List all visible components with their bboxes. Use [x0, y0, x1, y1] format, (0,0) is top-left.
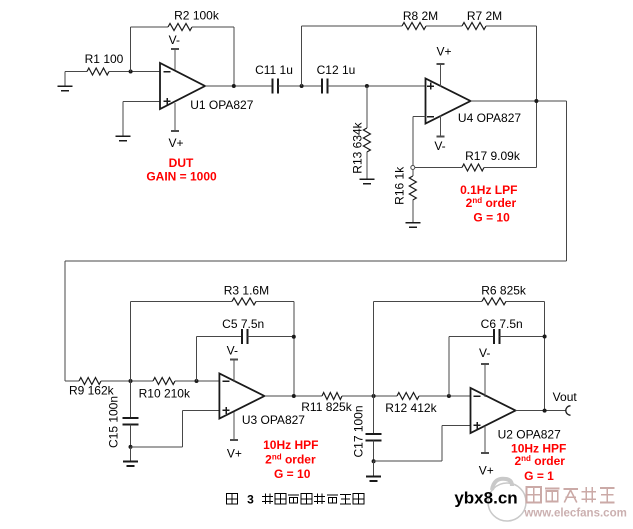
ground C17: [366, 461, 381, 481]
svg-text:3: 3: [247, 493, 254, 507]
node U1 out junction: [232, 84, 236, 88]
op-amp U4: [426, 79, 522, 126]
wire U2 + into: [442, 424, 470, 426]
ground R16: [405, 223, 420, 228]
terminal Vout: [553, 390, 578, 415]
svg-text:R9 162k: R9 162k: [69, 383, 115, 397]
svg-text:V-: V-: [434, 139, 445, 153]
svg-text:ybx8.cn: ybx8.cn: [454, 489, 517, 508]
ground input: [58, 72, 73, 91]
svg-text:R10 210k: R10 210k: [139, 386, 191, 400]
svg-text:U4 OPA827: U4 OPA827: [458, 111, 521, 125]
node C6 right junction: [543, 335, 547, 339]
wire R6 rail right: [506, 300, 545, 302]
watermark url: [523, 508, 626, 520]
resistor R17: [462, 149, 521, 171]
capacitor C5: [222, 317, 264, 344]
wire C12 to U4 +: [328, 85, 426, 87]
wire to ground U1+: [122, 101, 124, 136]
resistor R10: [139, 378, 191, 401]
wire U3 + vert: [181, 410, 183, 447]
svg-text:R7 2M: R7 2M: [467, 9, 502, 23]
V- stub U3: [227, 343, 238, 382]
svg-text:U2 OPA827: U2 OPA827: [498, 427, 561, 441]
V+ stub U1: [168, 103, 183, 150]
svg-text:U1 OPA827: U1 OPA827: [190, 98, 253, 112]
node A junction: [129, 70, 133, 74]
node C junction: [372, 394, 376, 398]
op-amp U1: [160, 63, 254, 112]
wire down right edge: [566, 101, 568, 261]
svg-text:V+: V+: [227, 446, 242, 460]
wire rail mid: [426, 25, 462, 27]
op-amp U3: [219, 374, 305, 428]
node U3 out junction: [292, 394, 296, 398]
wire C6 vert left: [448, 337, 450, 397]
wire R3 vert right: [293, 301, 295, 396]
node U4 out junction: [534, 99, 538, 103]
svg-text:V-: V-: [227, 343, 238, 357]
svg-text:R1 100: R1 100: [85, 52, 124, 66]
wire R11 right: [342, 395, 397, 397]
caption figure 3: [227, 493, 365, 507]
V- stub U2: [479, 346, 490, 397]
node C11-C12 junction: [300, 84, 304, 88]
node U2 out junction: [543, 409, 547, 413]
node C6 left junction: [447, 394, 451, 398]
svg-text:R6 825k: R6 825k: [481, 284, 527, 298]
svg-text:R17 9.09k: R17 9.09k: [465, 149, 521, 163]
wire U1 output: [205, 85, 272, 87]
ground C15: [123, 447, 138, 466]
svg-text:C11 1u: C11 1u: [255, 63, 293, 77]
watermark chinese: [527, 487, 615, 503]
label 10Hz HPF U3: [263, 438, 318, 452]
svg-text:V+: V+: [479, 463, 494, 477]
V- stub U1: [169, 33, 180, 70]
wire rail right: [486, 25, 536, 27]
svg-text:G = 10: G = 10: [274, 467, 311, 481]
capacitor C17: [352, 396, 382, 461]
wire C6 rail left: [449, 336, 494, 338]
wire R6 rail left: [374, 300, 482, 302]
wire U4 - left: [413, 116, 426, 118]
wire R1 to U1 -: [109, 71, 160, 73]
svg-text:R3 1.6M: R3 1.6M: [224, 284, 269, 298]
svg-text:C17 100n: C17 100n: [352, 405, 366, 457]
wire C6 rail right: [500, 336, 545, 338]
wire rail left: [302, 25, 402, 27]
wire R3 vert left: [130, 301, 132, 381]
capacitor C11: [255, 63, 293, 93]
svg-text:Vout: Vout: [553, 390, 578, 404]
wire rail down: [535, 26, 537, 168]
svg-text:V+: V+: [436, 45, 451, 59]
wire to R9: [65, 380, 79, 382]
wire C11 to C12: [278, 85, 322, 87]
svg-text:C12 1u: C12 1u: [317, 63, 356, 77]
op-amp U2: [471, 388, 562, 441]
svg-text:C5 7.5n: C5 7.5n: [222, 317, 264, 331]
wire C5 vert left: [196, 337, 198, 381]
resistor R7: [462, 9, 502, 30]
svg-text:G = 10: G = 10: [473, 211, 510, 225]
V- stub U4: [434, 115, 445, 153]
label GAIN = 1000: [146, 170, 217, 184]
wire R3 rail right: [256, 300, 294, 302]
resistor R3: [224, 284, 269, 305]
wire U3 + into: [182, 409, 219, 411]
svg-text:C15 100n: C15 100n: [107, 396, 121, 448]
wire R3 rail left: [131, 300, 233, 302]
wire feedback top right: [192, 26, 234, 28]
resistor R16: [393, 166, 417, 223]
wire U3 output: [264, 395, 322, 397]
label 2nd order U3: [265, 453, 316, 467]
wire down left edge: [64, 261, 66, 381]
wire U4 output: [471, 100, 567, 102]
svg-text:R8 2M: R8 2M: [403, 9, 438, 23]
V+ stub U2: [479, 426, 494, 477]
svg-text:V+: V+: [168, 136, 183, 150]
wire feedback right: [233, 27, 235, 86]
wire U2 output: [516, 410, 567, 412]
wire R10 to U3 -: [175, 380, 219, 382]
wire R6 vert right: [544, 301, 546, 410]
wire U1 + input: [123, 100, 160, 102]
wire node to R17: [415, 167, 462, 169]
wire R17 right: [484, 167, 536, 169]
wire C17 to U2 + horizontal: [374, 460, 443, 462]
wire C15 to U3 + horizontal: [131, 446, 183, 448]
resistor R6: [481, 284, 527, 305]
resistor R1: [85, 52, 124, 75]
resistor R8: [402, 9, 438, 30]
V+ stub U3: [227, 412, 242, 460]
svg-text:R16 1k: R16 1k: [393, 166, 407, 205]
capacitor C6: [481, 317, 523, 344]
logo blob: [488, 479, 526, 521]
wire feedback top left: [131, 26, 168, 28]
wire U4 - down: [412, 117, 414, 168]
wire R6 vert left: [373, 301, 375, 396]
svg-text:10Hz HPF: 10Hz HPF: [263, 438, 318, 452]
node C15 bottom junction: [129, 445, 133, 449]
label 10Hz HPF U2: [511, 441, 566, 455]
label DUT: [169, 156, 194, 170]
wire across: [65, 260, 567, 262]
resistor R9: [69, 378, 115, 398]
svg-text:www.elecfans.com: www.elecfans.com: [523, 508, 626, 520]
node R13 tap: [365, 84, 369, 88]
svg-text:R11 825k: R11 825k: [301, 400, 352, 414]
resistor R11: [301, 393, 352, 415]
resistor R2: [168, 9, 220, 31]
wire C5 rail right: [248, 336, 294, 338]
resistor R13: [351, 86, 371, 179]
V+ stub U4: [436, 45, 451, 88]
label G = 10 U3: [274, 467, 311, 481]
svg-text:V-: V-: [479, 346, 490, 360]
node C17 bottom junction: [372, 459, 376, 463]
capacitor C12: [317, 63, 356, 94]
wire U2 + vert: [441, 425, 443, 461]
wire C5 rail left: [197, 336, 243, 338]
node B junction: [129, 379, 133, 383]
wire R9 to R10: [101, 380, 153, 382]
label G = 10 U4: [473, 211, 510, 225]
capacitor C15: [107, 381, 139, 448]
wire R12 to U2 -: [419, 395, 471, 397]
svg-text:R12 412k: R12 412k: [385, 401, 437, 415]
svg-text:GAIN = 1000: GAIN = 1000: [146, 170, 217, 184]
label 2nd order U4: [466, 196, 517, 210]
logo ybx8.cn: [454, 489, 517, 508]
node R16 R17: [411, 166, 415, 170]
label G = 1 U2: [524, 469, 554, 483]
wire feedback left: [130, 27, 132, 72]
svg-text:U3 OPA827: U3 OPA827: [242, 413, 305, 427]
wire junction up: [301, 26, 303, 86]
svg-text:C6 7.5n: C6 7.5n: [481, 317, 523, 331]
svg-text:R2 100k: R2 100k: [174, 9, 220, 23]
node C5 right junction: [292, 335, 296, 339]
node C5 left junction: [195, 379, 199, 383]
resistor R12: [385, 393, 437, 415]
svg-text:G = 1: G = 1: [524, 469, 554, 483]
label 2nd order U2: [514, 454, 565, 468]
label 0.1Hz LPF: [460, 183, 517, 197]
svg-text:V-: V-: [169, 33, 180, 47]
ground U1 +: [116, 136, 131, 141]
svg-text:DUT: DUT: [169, 156, 194, 170]
wire input to R1: [65, 71, 87, 73]
ground R13: [359, 179, 374, 184]
svg-text:R13 634k: R13 634k: [351, 121, 365, 173]
